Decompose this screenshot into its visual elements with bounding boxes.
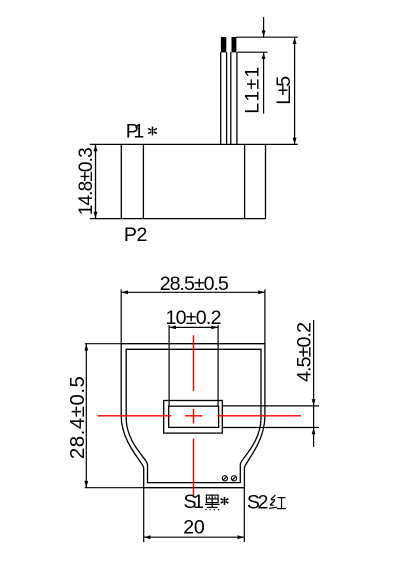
svg-text:28.5±0.5: 28.5±0.5 bbox=[160, 273, 229, 295]
svg-text:P1: P1 bbox=[126, 121, 145, 143]
svg-text:S1: S1 bbox=[184, 491, 205, 513]
svg-text:14.8±0.3: 14.8±0.3 bbox=[76, 147, 97, 215]
svg-text:S2: S2 bbox=[247, 491, 269, 513]
svg-text:10±0.2: 10±0.2 bbox=[166, 307, 222, 329]
svg-text:4.5±0.2: 4.5±0.2 bbox=[294, 322, 316, 382]
svg-text:28.4±0.5: 28.4±0.5 bbox=[67, 376, 89, 459]
svg-text:L1±1: L1±1 bbox=[242, 67, 264, 114]
svg-text:20: 20 bbox=[183, 516, 205, 538]
svg-text:L±5: L±5 bbox=[273, 76, 295, 105]
svg-text:P2: P2 bbox=[124, 224, 147, 246]
